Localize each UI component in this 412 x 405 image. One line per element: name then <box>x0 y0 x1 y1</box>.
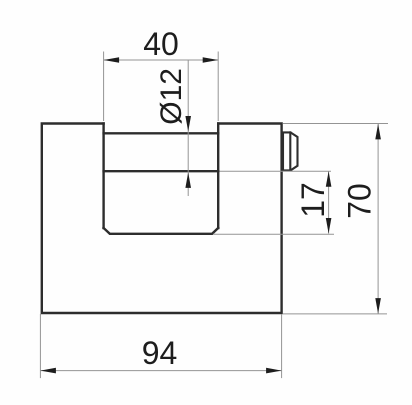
dimension line 94 <box>40 370 281 372</box>
extension line 94 right <box>281 314 283 378</box>
shackle notch right wall <box>217 124 219 229</box>
svg-text:94: 94 <box>142 335 178 371</box>
arrow dia12 down <box>185 116 191 132</box>
arrow 40 left <box>104 57 120 63</box>
extension line 94 left <box>39 314 41 378</box>
extension line 40 right <box>217 52 219 122</box>
arrow 17 up <box>326 171 332 187</box>
shackle pin top line <box>104 132 219 134</box>
extension line 70 top <box>283 123 388 125</box>
dimension line 17 <box>328 171 330 233</box>
leader line dia12 <box>187 60 189 196</box>
shackle notch left wall <box>102 124 104 229</box>
svg-text:17: 17 <box>295 182 331 218</box>
arrow 94 left <box>40 368 56 374</box>
arrow 70 up <box>375 124 381 139</box>
extension line slot bottom (17 bottom) <box>213 233 334 235</box>
shackle pin bottom line <box>104 170 219 172</box>
arrow dia12 up <box>185 172 191 188</box>
pin end cap inner line <box>289 132 291 170</box>
pin end cap protrusion <box>283 132 298 170</box>
svg-text:40: 40 <box>143 26 179 62</box>
arrow 70 down <box>375 298 381 314</box>
extension line 70 bottom <box>283 313 387 315</box>
arrow 94 right <box>266 368 282 374</box>
arrow 17 down <box>326 218 332 234</box>
dimension line 70 <box>377 124 379 314</box>
svg-text:70: 70 <box>342 183 378 219</box>
extension line pin bottom (17 top) <box>220 170 332 172</box>
arrow 40 right <box>203 57 219 63</box>
extension line 40 left <box>103 52 105 122</box>
padlock body outline <box>42 124 282 314</box>
dimension line 40 <box>104 59 219 61</box>
slot bottom with chamfers <box>104 228 219 234</box>
svg-text:Ø12: Ø12 <box>155 68 188 125</box>
